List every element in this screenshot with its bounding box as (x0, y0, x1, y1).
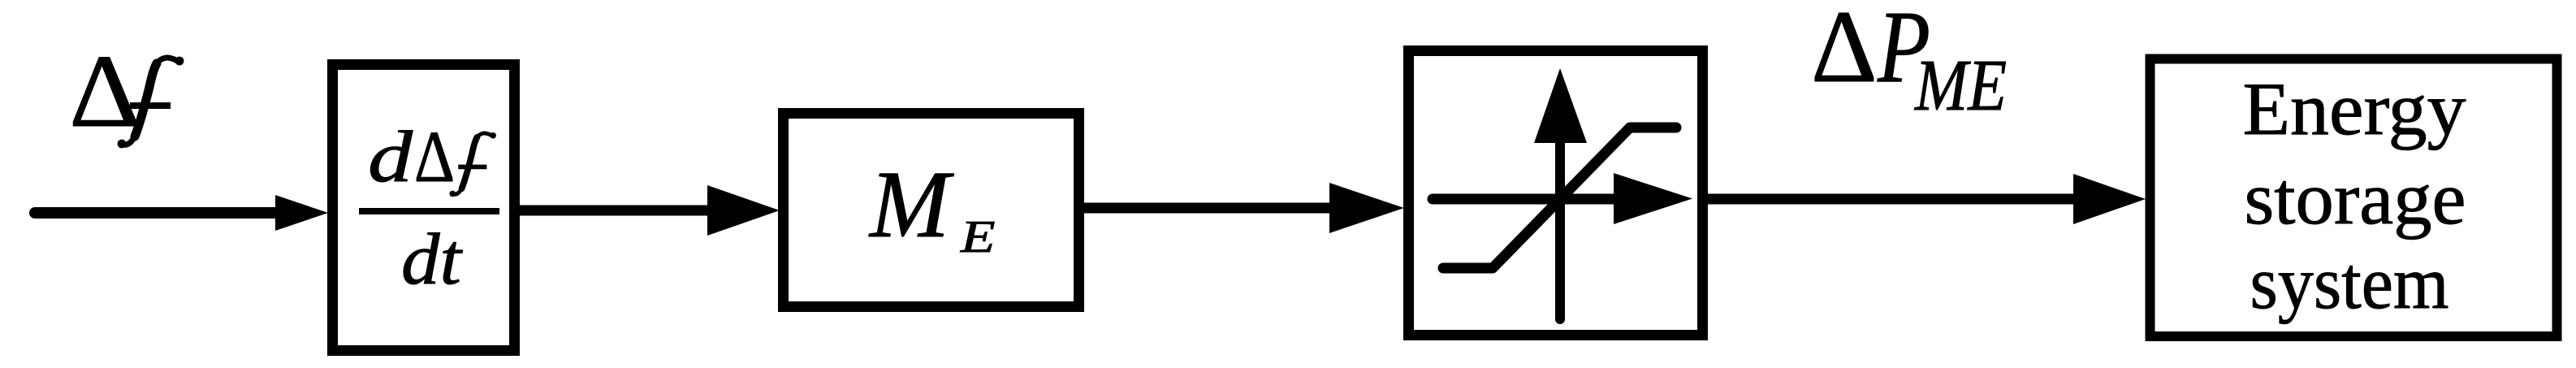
svg-text:system: system (2250, 241, 2449, 324)
svg-text:Δ: Δ (69, 33, 140, 149)
block U4 energy storage system (2150, 59, 2557, 337)
block U3 rate limiter / saturation (1409, 51, 1703, 336)
block U2 gain M_E (784, 114, 1079, 307)
wire arrow derivative to gain block (520, 185, 780, 236)
wire arrow limiter to energy storage block (1707, 174, 2146, 224)
limiter saturation curve (1443, 128, 1676, 268)
node ΔP_ME output signal label (1811, 0, 2007, 126)
node Δf input signal label (69, 33, 184, 149)
svg-text:E: E (960, 212, 996, 262)
wire arrow gain to limiter block (1084, 183, 1404, 233)
text Energy storage system (2243, 67, 2466, 324)
limiter horizontal axis with right arrow (1433, 173, 1692, 224)
svg-text:storage: storage (2245, 157, 2466, 240)
svg-text:d: d (368, 117, 413, 197)
svg-text:ME: ME (1913, 45, 2007, 126)
fraction bar (359, 208, 499, 214)
limiter vertical axis with up arrow (1534, 68, 1587, 319)
svg-text:Δ: Δ (1811, 0, 1878, 104)
value label numerator dΔf (368, 117, 496, 197)
value label M_E (868, 151, 996, 262)
wire input arrow into derivative block (35, 195, 328, 231)
block U1 derivative d∆f/dt (333, 65, 515, 351)
svg-text:Δ: Δ (414, 117, 455, 197)
svg-text:dt: dt (401, 219, 463, 300)
svg-text:M: M (868, 151, 954, 258)
svg-text:Energy: Energy (2243, 67, 2466, 150)
